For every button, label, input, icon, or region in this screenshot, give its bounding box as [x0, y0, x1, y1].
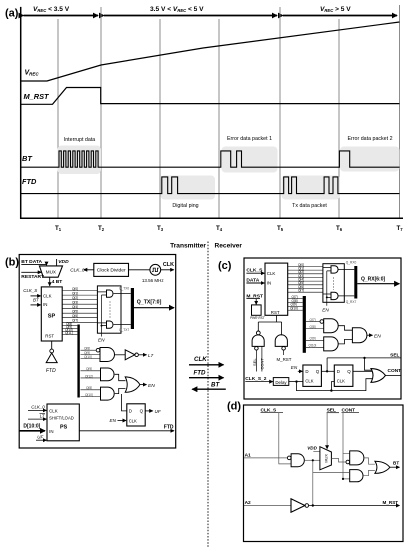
and gate bottom [107, 321, 113, 328]
wire clock divider to CLK_0 [84, 269, 94, 271]
svg-text:T1: T1 [55, 225, 62, 232]
trace M_RST [21, 88, 400, 105]
svg-text:T4: T4 [216, 225, 223, 232]
svg-text:CLK_S_2: CLK_S_2 [245, 376, 266, 382]
gridline T2 [100, 7, 102, 218]
svg-text:Q: Q [347, 369, 351, 374]
svg-text:Q[7]: Q[7] [72, 319, 78, 323]
axis [21, 7, 403, 218]
wire dff1 to dff2 [321, 370, 334, 372]
mux d [320, 447, 332, 470]
and gate top [107, 290, 113, 297]
svg-text:EN: EN [291, 365, 298, 370]
svg-text:CLK: CLK [305, 379, 313, 384]
svg-text:CLK: CLK [129, 419, 137, 424]
svg-text:SP: SP [48, 314, 56, 320]
bus SP to bar rx [288, 299, 303, 311]
wire into D [122, 394, 127, 411]
wire BT out [390, 466, 400, 468]
svg-text:PS: PS [60, 424, 68, 430]
svg-text:VREC: VREC [25, 70, 40, 77]
block PWR RST [252, 305, 262, 315]
svg-text:A2: A2 [245, 500, 251, 506]
wire RESTART to MUX [21, 271, 41, 273]
wire FTD tx-to-rx [189, 377, 224, 379]
svg-text:Transmitter: Transmitter [170, 243, 206, 250]
panel b box [19, 255, 176, 449]
svg-text:Q[4]: Q[4] [72, 305, 78, 309]
svg-text:M_RST: M_RST [383, 500, 399, 505]
wire CLK tx-to-rx [189, 364, 224, 366]
svg-text:T3: T3 [157, 225, 164, 232]
svg-text:Delay: Delay [275, 380, 287, 385]
svg-text:VDD: VDD [58, 259, 69, 265]
highlight error packet 1 [222, 147, 278, 173]
svg-text:IN: IN [267, 281, 271, 286]
wire BT rx-to-tx [192, 388, 226, 390]
wire PS to FTD out [79, 430, 174, 432]
svg-text:Q[2]: Q[2] [72, 296, 78, 300]
panel d box [244, 405, 404, 542]
svg-text:FTD: FTD [22, 177, 37, 186]
block SP receiver [265, 263, 288, 315]
panel c box [244, 258, 401, 399]
svg-text:BT: BT [393, 460, 399, 465]
wires array to bar [338, 268, 354, 270]
svg-text:RESTART: RESTART [21, 274, 44, 280]
or gate G4 [125, 377, 140, 392]
svg-text:CLK_0: CLK_0 [70, 267, 85, 272]
and gate d2 [346, 460, 350, 464]
svg-text:Q_TX0: Q_TX0 [119, 287, 129, 291]
inverter FTD to RST [51, 341, 53, 349]
svg-text:SHIFT/LOAD: SHIFT/LOAD [49, 416, 74, 421]
svg-text:Q[7]: Q[7] [298, 289, 304, 293]
svg-text:Error data packet 1: Error data packet 1 [227, 136, 272, 142]
highlight tx data packet [282, 176, 341, 200]
svg-text:CLK_S: CLK_S [23, 288, 37, 293]
ellipsis dots rx [333, 278, 335, 291]
svg-text:Q[0]: Q[0] [72, 287, 78, 291]
nand gate G1 [100, 348, 115, 362]
svg-text:Interrupt data: Interrupt data [64, 137, 96, 143]
svg-text:Tx data packet: Tx data packet [292, 203, 327, 209]
svg-text:UF: UF [155, 409, 162, 414]
inverter to L7 [115, 354, 126, 356]
svg-text:Q[6]: Q[6] [72, 314, 78, 318]
wire delay to dff1 [289, 381, 303, 383]
wire nand branch to and d3 and mrst [313, 460, 350, 505]
wires G2 G3 to OR [115, 374, 126, 393]
power VDD [56, 259, 58, 266]
ellipsis dots [109, 302, 111, 318]
wire EN distribution [97, 292, 106, 337]
trace FTD [21, 177, 400, 194]
wires to or gate d [363, 458, 375, 476]
svg-text:T2: T2 [98, 225, 105, 232]
svg-text:CLK: CLK [43, 294, 52, 299]
svg-text:EN: EN [374, 333, 381, 339]
svg-text:4 BT: 4 BT [52, 279, 63, 285]
svg-text:T6: T6 [336, 225, 343, 232]
region arrow 3 [283, 15, 397, 17]
svg-text:Receiver: Receiver [215, 243, 243, 250]
svg-text:(a): (a) [5, 8, 19, 20]
svg-text:A1: A1 [245, 452, 251, 458]
svg-text:M_RST: M_RST [277, 357, 292, 362]
svg-text:UF: UF [37, 434, 43, 439]
svg-text:Q: Q [316, 369, 320, 374]
trace BT [21, 151, 400, 167]
gridline T5 [279, 7, 281, 218]
svg-text:FTD: FTD [46, 368, 56, 374]
svg-text:EN: EN [110, 418, 117, 423]
svg-text:MUX: MUX [46, 269, 56, 274]
svg-text:Q[10]: Q[10] [290, 307, 298, 311]
wire divider to oscillator [129, 269, 150, 271]
bus bar Q_TX [131, 288, 134, 329]
svg-text:BT: BT [211, 382, 220, 389]
gridline T4 [218, 19, 220, 218]
svg-text:FTD: FTD [164, 424, 174, 430]
region arrow 2 [104, 15, 277, 17]
and gate top rx [331, 266, 338, 273]
svg-text:Q[8]: Q[8] [310, 325, 316, 329]
trace VREC [21, 22, 400, 81]
svg-text:Q[10]: Q[10] [85, 393, 93, 397]
wire dff2 to xor [353, 370, 372, 372]
nand gate rx G1 [324, 319, 339, 333]
svg-text:Q_TX7: Q_TX7 [119, 328, 129, 332]
svg-text:Digital ping: Digital ping [172, 203, 198, 209]
and gate G3 [101, 387, 115, 400]
svg-text:Q[12]: Q[12] [85, 374, 93, 378]
and gate vertical B [275, 335, 287, 347]
highlight interrupt data [58, 146, 102, 175]
svg-text:Q[5]: Q[5] [72, 310, 78, 314]
bus SP to gate array rx [288, 266, 323, 292]
and gate rx G2 [324, 337, 339, 351]
svg-text:CONT: CONT [259, 358, 264, 370]
svg-text:Error data packet 2: Error data packet 2 [347, 136, 392, 142]
highlight digital ping [161, 176, 216, 200]
oscillator 13.56 MHz [150, 264, 161, 275]
block PS parallel-serial [47, 404, 79, 441]
svg-text:Q[9]: Q[9] [310, 337, 316, 341]
and gate rx G3 [352, 328, 367, 343]
wire mux out [331, 458, 346, 462]
svg-text:T7: T7 [396, 225, 403, 232]
svg-text:RST: RST [271, 310, 280, 315]
svg-text:CLK: CLK [267, 271, 276, 276]
svg-text:(c): (c) [218, 260, 232, 272]
svg-text:(b): (b) [5, 257, 19, 269]
svg-text:CLK_0: CLK_0 [31, 404, 45, 409]
bus bar node rx [303, 296, 306, 353]
gate array box [97, 286, 121, 333]
time labels T1-T7 [55, 225, 403, 232]
wire RST chain [258, 315, 281, 335]
wire SEL down [326, 413, 328, 449]
wire BT DATA to MUX [21, 263, 46, 266]
svg-text:CONT: CONT [388, 368, 402, 374]
wire CLK_S down [279, 413, 291, 464]
bus SP to gate array [62, 291, 97, 323]
svg-text:VREC > 5 V: VREC > 5 V [320, 6, 351, 13]
nand gate vertical A [256, 331, 260, 335]
svg-text:BT: BT [22, 154, 33, 163]
wire clk under dffs [297, 379, 373, 391]
block delay [273, 378, 289, 386]
wire SEL net [327, 357, 401, 359]
svg-text:CLK: CLK [49, 408, 58, 413]
svg-text:(d): (d) [227, 401, 241, 413]
wires SEL CONT down [255, 350, 257, 371]
svg-text:IN: IN [43, 302, 47, 307]
svg-text:13.56 MHz: 13.56 MHz [142, 278, 165, 283]
wire mux output 4 BT [49, 277, 51, 286]
svg-text:D: D [129, 409, 132, 414]
gridline T7 [399, 5, 401, 218]
svg-text:Q_TX[7:0]: Q_TX[7:0] [137, 300, 162, 306]
wire Q_TX out [134, 307, 174, 309]
svg-text:Q[10]: Q[10] [84, 355, 92, 359]
svg-text:L7: L7 [148, 353, 154, 358]
svg-text:VDD: VDD [307, 446, 317, 451]
gate array box rx [323, 264, 344, 303]
svg-text:CLK: CLK [194, 356, 207, 363]
svg-text:EN: EN [322, 308, 329, 313]
dff2 [334, 365, 353, 386]
wire nand to mux [304, 459, 320, 461]
wire Q_RX out [357, 283, 399, 285]
block SP serial-parallel [41, 287, 62, 341]
svg-text:CLK_S: CLK_S [246, 267, 263, 273]
inverter d [291, 499, 305, 513]
svg-text:IN: IN [49, 429, 53, 434]
mux U1 [39, 266, 62, 277]
svg-text:Q[8]: Q[8] [86, 386, 92, 390]
gridline T1 [57, 19, 59, 218]
bus bar Q_RX [354, 266, 357, 299]
svg-text:Q[3]: Q[3] [72, 301, 78, 305]
svg-text:Q[11]: Q[11] [65, 331, 73, 335]
or gate CONT [371, 369, 386, 383]
nand gate d1 [287, 456, 291, 460]
svg-text:T5: T5 [277, 225, 284, 232]
or gate d4 [375, 461, 390, 473]
svg-text:3.5 V < VREC < 5 V: 3.5 V < VREC < 5 V [150, 6, 204, 13]
svg-text:D[10:0]: D[10:0] [23, 423, 40, 429]
wire Q to UF [145, 410, 153, 412]
and gate d3 [350, 470, 363, 482]
svg-text:BT: BT [33, 298, 39, 303]
svg-text:D: D [337, 369, 340, 374]
gridline T3 [159, 19, 161, 218]
svg-text:VREC < 3.5 V: VREC < 3.5 V [33, 6, 70, 13]
bus bar node [77, 325, 79, 398]
svg-text:CLK: CLK [163, 262, 174, 268]
region arrow 1 [24, 15, 99, 17]
wire M_RST out [309, 505, 400, 507]
svg-text:Q[7]: Q[7] [310, 318, 316, 322]
svg-text:EN: EN [98, 338, 105, 343]
svg-text:SEL: SEL [390, 352, 399, 358]
svg-text:MUX: MUX [323, 454, 328, 463]
svg-text:M_RST: M_RST [24, 92, 51, 101]
gridline T6 [338, 19, 340, 218]
block clock divider [94, 263, 129, 276]
and gate bottom rx [331, 292, 338, 299]
svg-text:Q_RX[6:0]: Q_RX[6:0] [361, 276, 386, 282]
dff U2 [127, 404, 145, 426]
wire EN distribution rx [323, 268, 331, 306]
svg-text:RST: RST [45, 334, 54, 339]
svg-text:PWR RST: PWR RST [250, 316, 266, 320]
svg-text:FTD: FTD [194, 370, 207, 377]
and gate G2 [101, 368, 115, 381]
svg-text:Clock Divider: Clock Divider [97, 268, 126, 274]
svg-text:Q_RX7: Q_RX7 [346, 300, 357, 304]
svg-text:Q[1]: Q[1] [72, 292, 78, 296]
svg-text:LT: LT [40, 414, 45, 419]
svg-text:CLK: CLK [337, 379, 345, 384]
svg-text:Q[9]: Q[9] [86, 367, 92, 371]
svg-text:EN: EN [148, 383, 155, 389]
bus SP to bar [62, 326, 77, 335]
svg-text:Q: Q [140, 409, 144, 414]
wire and outputs [114, 293, 131, 295]
svg-text:D: D [305, 369, 308, 374]
svg-text:DATA: DATA [246, 277, 259, 283]
svg-text:Q_RX0: Q_RX0 [346, 260, 357, 264]
svg-text:SEL: SEL [252, 358, 257, 366]
highlight error packet 2 [340, 147, 400, 172]
dff1 [303, 365, 322, 386]
wire oscillator to CLK [161, 269, 174, 271]
svg-text:Q[10]: Q[10] [309, 344, 317, 348]
separator dashed line [207, 242, 209, 549]
wire CONT down [343, 413, 350, 479]
